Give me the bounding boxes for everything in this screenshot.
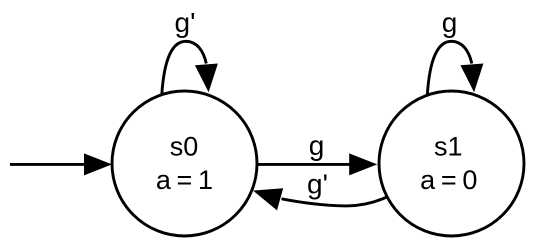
state s1 circle (379, 91, 524, 236)
svg-text:g: g (442, 7, 458, 38)
state s0 circle (112, 91, 257, 236)
svg-text:s1: s1 (434, 132, 463, 162)
transition arrowhead g into s1 (349, 153, 377, 175)
transition arrowhead g' into s0 (253, 188, 283, 210)
svg-text:a = 0: a = 0 (420, 165, 476, 195)
svg-text:s0: s0 (170, 132, 199, 162)
svg-text:g': g' (307, 169, 328, 200)
initial arrow wire (10, 163, 85, 166)
svg-text:g': g' (175, 7, 196, 38)
self-loop wire on s1 (427, 41, 472, 95)
svg-text:a = 1: a = 1 (156, 165, 212, 195)
initial arrowhead (84, 153, 112, 175)
transition wire g' from s1 to s0 (282, 197, 388, 206)
transition wire g from s0 to s1 (257, 163, 350, 166)
svg-text:g: g (309, 130, 325, 161)
self-loop arrowhead on s1 (460, 64, 483, 93)
self-loop arrowhead on s0 (195, 64, 218, 93)
self-loop wire on s0 (162, 41, 207, 94)
